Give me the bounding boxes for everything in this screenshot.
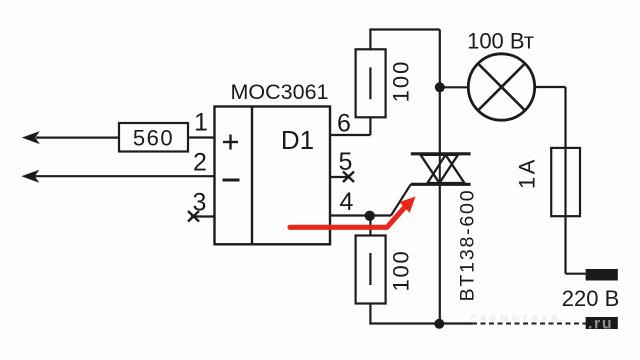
svg-text:1А: 1А bbox=[515, 157, 540, 189]
svg-text:560: 560 bbox=[133, 126, 174, 151]
svg-text:5: 5 bbox=[339, 148, 353, 176]
svg-text:D1: D1 bbox=[281, 125, 314, 155]
svg-text:2: 2 bbox=[193, 149, 207, 177]
svg-text:схемотека: схемотека bbox=[470, 313, 561, 325]
svg-text:6: 6 bbox=[337, 110, 351, 138]
svg-text:100: 100 bbox=[389, 249, 414, 291]
svg-text:MOC3061: MOC3061 bbox=[231, 80, 329, 104]
svg-text:BT138-600: BT138-600 bbox=[457, 189, 479, 302]
svg-text:4: 4 bbox=[340, 188, 354, 216]
svg-text:1: 1 bbox=[194, 109, 208, 137]
svg-text:100: 100 bbox=[389, 60, 414, 103]
svg-text:220 В: 220 В bbox=[562, 286, 620, 311]
svg-text:3: 3 bbox=[193, 189, 207, 217]
svg-text:100 Вт: 100 Вт bbox=[467, 29, 534, 54]
svg-text:.ru: .ru bbox=[588, 316, 613, 333]
